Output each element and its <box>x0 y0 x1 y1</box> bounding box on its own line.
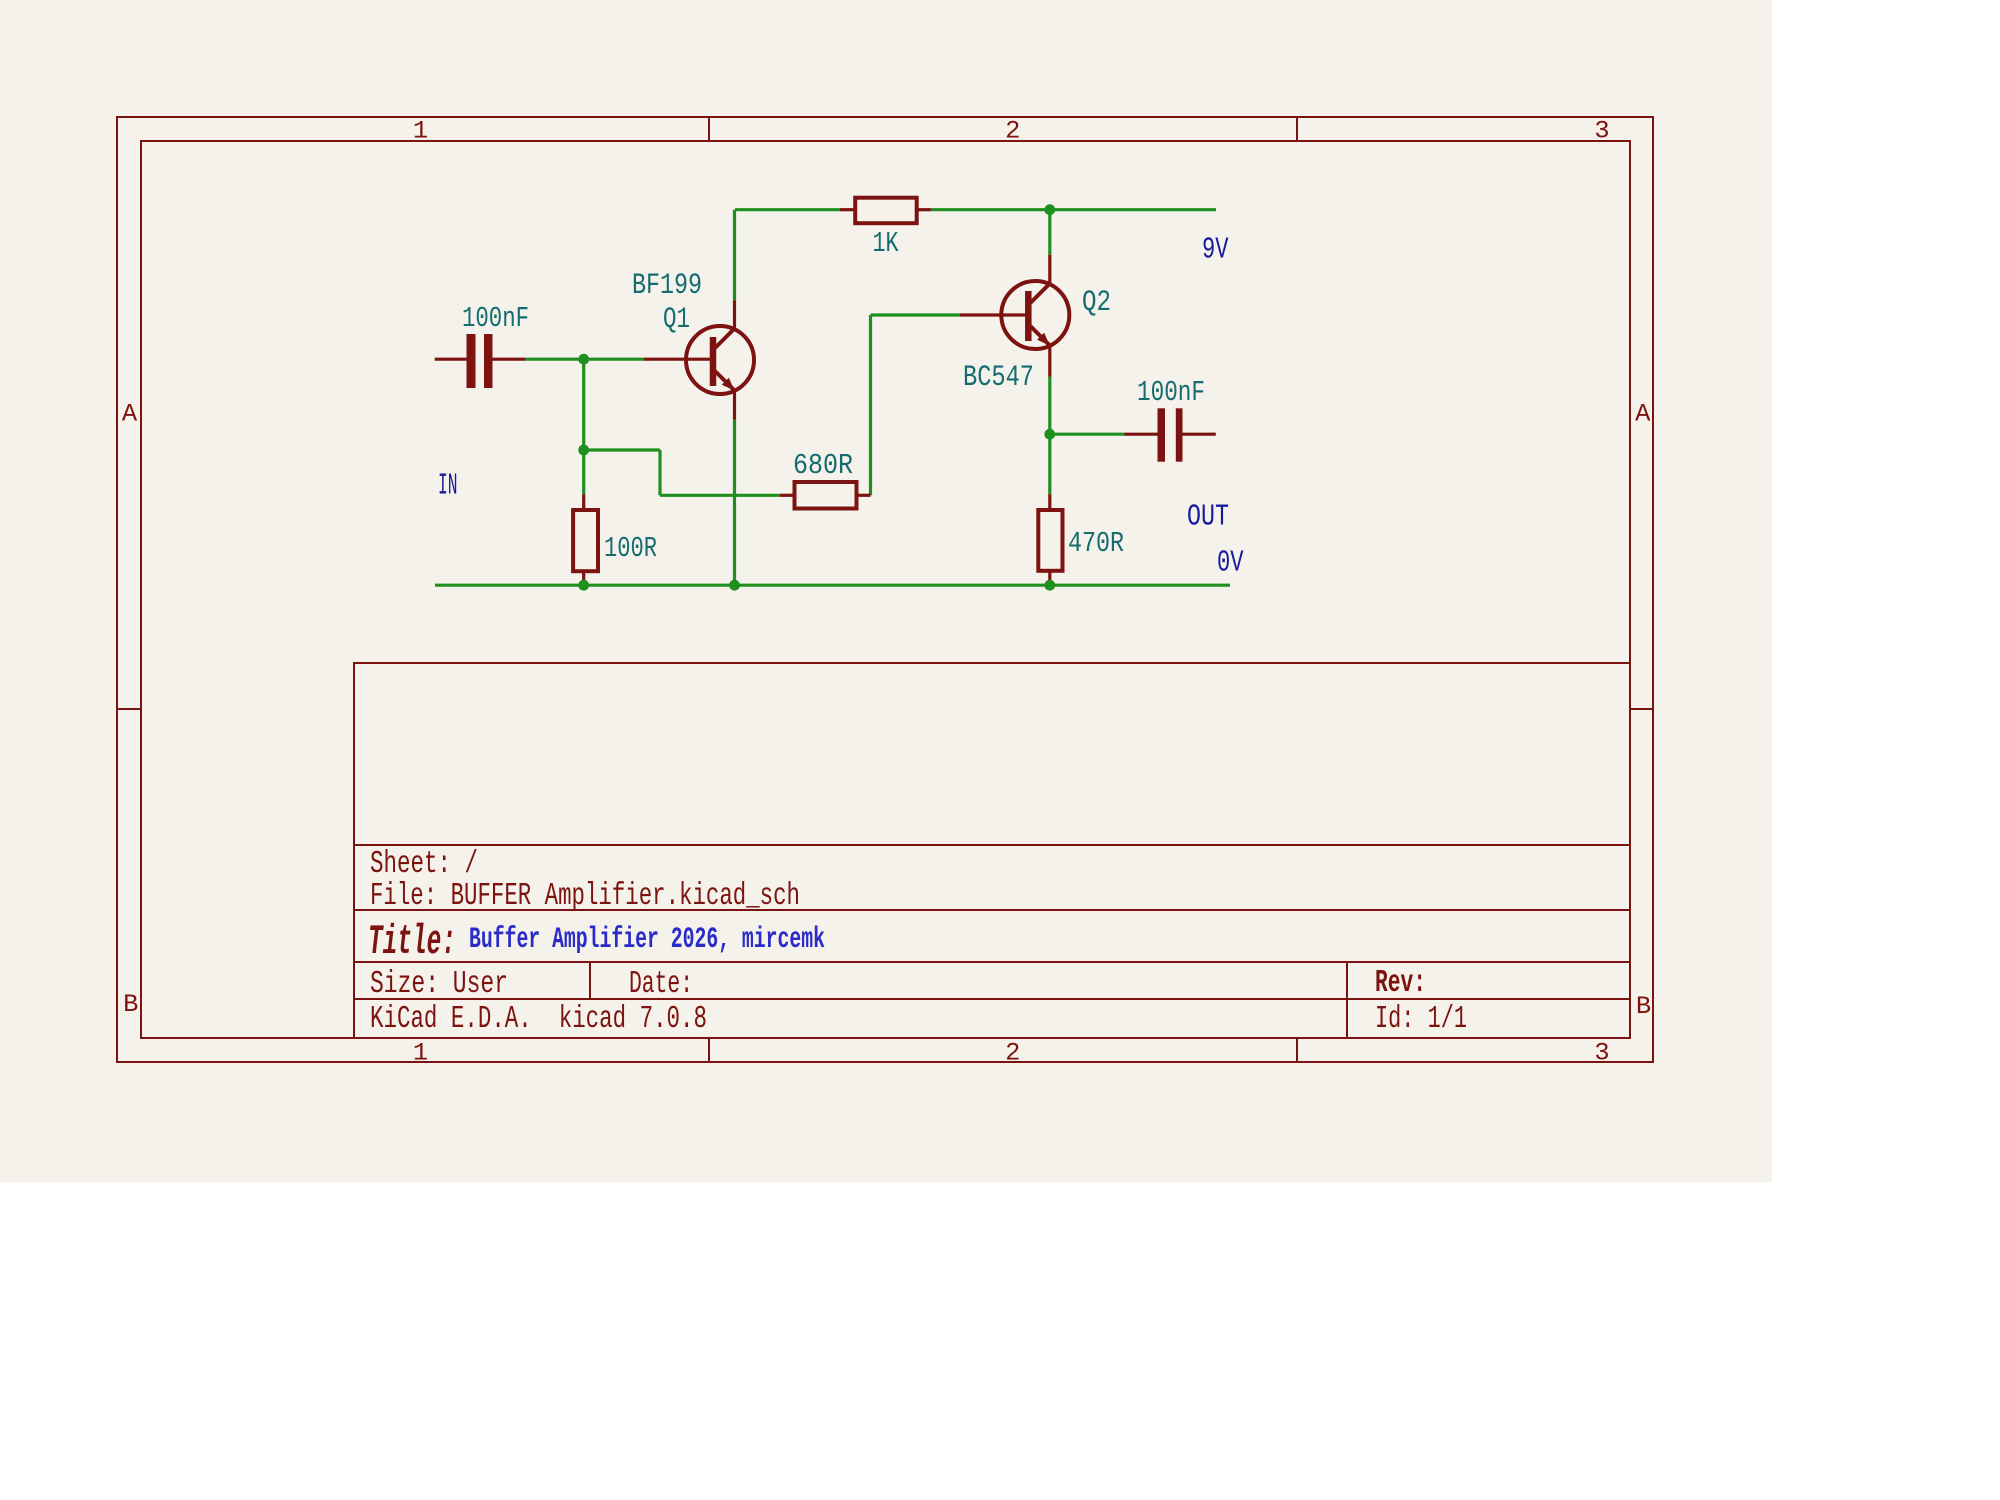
wire C1 to base node <box>525 358 644 361</box>
wire 0V rail <box>435 584 1230 587</box>
svg-text:B: B <box>1636 992 1651 1021</box>
svg-text:1K: 1K <box>873 227 900 260</box>
wire node to jog right <box>584 448 660 451</box>
wire jog to 680R <box>660 494 780 497</box>
transistor Q2 circle <box>1001 281 1069 349</box>
junction base node <box>578 354 589 365</box>
wire 9V rail left segment <box>735 208 840 211</box>
transistor Q2 emitter diagonal <box>1030 326 1050 346</box>
svg-text:2: 2 <box>1005 1039 1020 1068</box>
title block outline <box>354 663 1630 1038</box>
wire jog down <box>658 450 661 495</box>
svg-text:Sheet: /: Sheet: / <box>370 847 478 882</box>
junction output node <box>1044 429 1055 440</box>
capacitor C2 pins <box>1124 433 1157 436</box>
svg-text:3: 3 <box>1594 1039 1609 1068</box>
transistor Q2 collector diagonal <box>1030 284 1050 304</box>
svg-text:Id: 1/1: Id: 1/1 <box>1375 1002 1467 1037</box>
frame column tick bottom 2|3 <box>1296 1038 1298 1062</box>
title block divider Rev/Id column <box>1346 962 1348 1038</box>
transistor Q1 circle <box>686 326 754 394</box>
resistor 470R body <box>1038 510 1062 571</box>
svg-text:B: B <box>123 990 138 1019</box>
junction 0V rail at 100R <box>578 580 589 591</box>
resistor 1K pins <box>840 208 855 211</box>
junction 0V rail at 470R <box>1044 580 1055 591</box>
wire base node down <box>582 359 585 494</box>
wire out node to C2 <box>1050 433 1124 436</box>
resistor 100R pins <box>582 494 585 510</box>
capacitor C2 plates <box>1158 408 1166 461</box>
transistor Q1 collector diagonal <box>715 329 735 349</box>
svg-text:2: 2 <box>1005 117 1020 146</box>
svg-text:OUT: OUT <box>1187 501 1229 535</box>
frame column tick top 1|2 <box>708 117 710 141</box>
transistor Q1 emitter diagonal <box>715 371 735 391</box>
svg-text:BC547: BC547 <box>963 360 1034 394</box>
frame column tick bottom 1|2 <box>708 1038 710 1062</box>
frame column tick top 2|3 <box>1296 117 1298 141</box>
junction divider node <box>578 445 589 456</box>
svg-text:Q2: Q2 <box>1082 285 1111 319</box>
wire 9V rail right segment <box>931 208 1216 211</box>
wire Q2 collector to rail <box>1048 210 1051 255</box>
title block row line below Size/Date/Rev <box>354 998 1630 1000</box>
svg-text:A: A <box>122 400 138 429</box>
svg-text:1: 1 <box>413 1039 428 1068</box>
transistor Q1 base pin <box>644 358 710 361</box>
svg-text:680R: 680R <box>793 449 853 482</box>
title block row line below Title <box>354 961 1630 963</box>
inner border frame <box>141 141 1630 1038</box>
svg-text:Size: User: Size: User <box>370 967 508 1002</box>
wire Q2 emitter down <box>1048 377 1051 435</box>
svg-text:100nF: 100nF <box>1137 376 1205 409</box>
title block row line above Sheet <box>354 844 1630 846</box>
transistor Q2 base bar <box>1025 291 1032 341</box>
resistor 100R body <box>573 510 598 571</box>
svg-text:470R: 470R <box>1068 527 1124 560</box>
transistor Q2 collector pin <box>1048 255 1051 284</box>
resistor 1K body <box>855 198 917 224</box>
title block row line below File <box>354 909 1630 911</box>
frame row tick left A|B <box>117 708 141 710</box>
transistor Q1 emitter pin <box>733 391 736 420</box>
capacitor C1 pins <box>435 358 467 361</box>
junction 9V rail at Q2 collector <box>1044 204 1055 215</box>
svg-text:BF199: BF199 <box>632 268 702 302</box>
capacitor C1 plates <box>467 334 476 388</box>
resistor 470R pins <box>1048 494 1051 510</box>
svg-text:File: BUFFER Amplifier.kicad_s: File: BUFFER Amplifier.kicad_sch <box>370 879 800 914</box>
junction 0V rail at Q1 emitter <box>729 580 740 591</box>
resistor 680R pins <box>780 494 795 497</box>
svg-text:Q1: Q1 <box>663 302 690 336</box>
svg-text:100nF: 100nF <box>462 302 529 335</box>
svg-text:Title:: Title: <box>368 918 456 966</box>
svg-text:0V: 0V <box>1217 547 1244 581</box>
transistor Q1 collector pin <box>733 301 736 329</box>
svg-text:9V: 9V <box>1202 234 1229 268</box>
title block divider Size|Date <box>589 962 591 999</box>
svg-text:IN: IN <box>438 470 458 504</box>
transistor Q2 base pin <box>960 313 1025 316</box>
transistor Q1 base bar <box>710 337 717 386</box>
svg-text:Buffer Amplifier 2026, mircemk: Buffer Amplifier 2026, mircemk <box>469 922 825 956</box>
transistor Q2 emitter pin <box>1048 346 1051 377</box>
svg-text:A: A <box>1635 400 1651 429</box>
svg-text:Rev:: Rev: <box>1375 966 1426 1001</box>
svg-text:1: 1 <box>413 117 428 146</box>
frame row tick right A|B <box>1630 708 1653 710</box>
wire Q1 emitter down <box>733 419 736 585</box>
transistor Q1 emitter arrow <box>722 378 735 391</box>
svg-text:3: 3 <box>1594 117 1609 146</box>
wire 680R up <box>869 315 872 495</box>
outer border frame <box>117 117 1653 1062</box>
transistor Q2 emitter arrow <box>1037 333 1050 346</box>
svg-text:KiCad E.D.A. kicad 7.0.8: KiCad E.D.A. kicad 7.0.8 <box>370 1002 707 1037</box>
wire out node to 470R <box>1048 434 1051 494</box>
resistor 680R body <box>795 482 857 509</box>
svg-text:100R: 100R <box>604 532 657 565</box>
wire to Q2 base <box>871 313 961 316</box>
wire Q1 collector to rail <box>733 210 736 301</box>
svg-text:Date:: Date: <box>629 967 693 1002</box>
